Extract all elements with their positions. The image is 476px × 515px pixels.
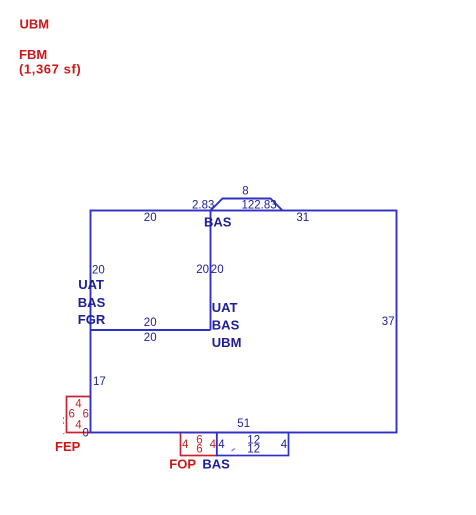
svg-text:FEP: FEP xyxy=(55,439,81,454)
svg-text:UBM: UBM xyxy=(212,335,242,350)
svg-text:4: 4 xyxy=(281,439,288,451)
svg-text:(1,367 sf): (1,367 sf) xyxy=(19,62,81,77)
svg-text:BAS: BAS xyxy=(78,295,106,310)
svg-text:20: 20 xyxy=(144,317,157,329)
svg-text:8: 8 xyxy=(242,185,248,197)
svg-text:31: 31 xyxy=(296,212,309,224)
bay window trapezoid xyxy=(211,199,283,211)
svg-text:51: 51 xyxy=(237,418,250,430)
FEP porch red outline xyxy=(67,397,91,433)
FEP dash artifacts xyxy=(62,417,65,435)
svg-text:UBM: UBM xyxy=(20,17,50,32)
svg-text:122.83: 122.83 xyxy=(242,199,277,211)
main building outline xyxy=(91,211,397,433)
svg-text:BAS: BAS xyxy=(204,214,232,229)
svg-text:0: 0 xyxy=(83,427,89,439)
svg-text:6: 6 xyxy=(83,409,89,421)
svg-text:2.83: 2.83 xyxy=(192,199,214,211)
FOP porch red outline xyxy=(181,433,217,456)
svg-text:BAS: BAS xyxy=(212,318,240,333)
svg-text:17: 17 xyxy=(93,376,106,388)
svg-text:12: 12 xyxy=(247,444,260,456)
svg-text:FOP: FOP xyxy=(169,457,196,472)
interior wall horizontal xyxy=(91,329,211,331)
svg-text:FBM: FBM xyxy=(19,47,47,62)
svg-text:UAT: UAT xyxy=(212,300,238,315)
svg-text:4: 4 xyxy=(182,439,189,451)
svg-text:4: 4 xyxy=(210,439,217,451)
svg-text:4: 4 xyxy=(75,398,82,410)
svg-text:37: 37 xyxy=(382,316,395,328)
faint artifact dash in BAS box xyxy=(232,449,236,452)
svg-text:BAS: BAS xyxy=(202,457,230,472)
svg-text:20: 20 xyxy=(144,212,157,224)
svg-text:4: 4 xyxy=(75,420,82,432)
svg-text:UAT: UAT xyxy=(78,277,104,292)
BAS bump-out blue outline xyxy=(217,433,289,456)
svg-text:6: 6 xyxy=(69,409,75,421)
svg-text:4: 4 xyxy=(218,439,225,451)
svg-text:20: 20 xyxy=(92,265,105,277)
interior wall vertical xyxy=(210,211,212,331)
svg-text:20: 20 xyxy=(211,264,224,276)
svg-text:6: 6 xyxy=(196,444,202,456)
svg-text:20: 20 xyxy=(196,264,209,276)
svg-text:20: 20 xyxy=(144,332,157,344)
svg-text:FGR: FGR xyxy=(78,312,106,327)
